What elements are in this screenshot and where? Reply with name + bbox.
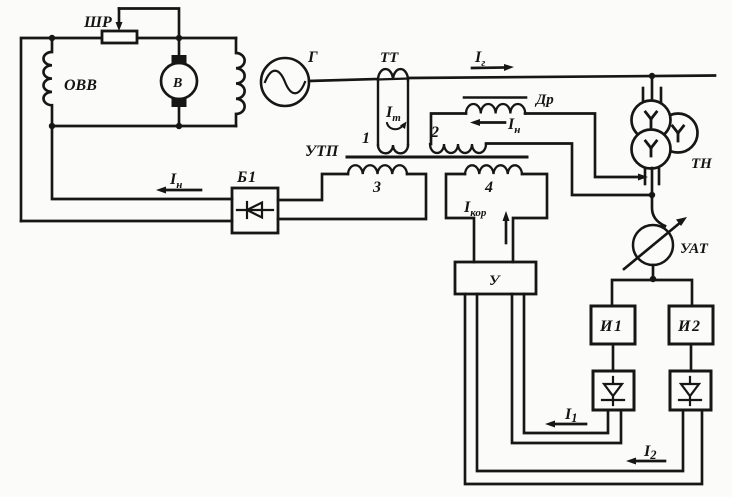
generator G circle [261,58,309,106]
svg-text:Др: Др [534,92,554,108]
wire: U leg to VS2 (upper) [477,294,683,471]
wire: B1 upper right to winding 3 left [278,174,348,200]
wire: U leg to VS2 (lower) [465,294,702,484]
wire: node F to UAT with curve [652,195,665,226]
wire: winding 4 left lead to U box [446,174,474,262]
box I1 [591,306,635,344]
svg-text:I1: I1 [564,406,577,425]
svg-text:Iг: Iг [474,49,485,69]
svg-text:ТН: ТН [691,156,713,172]
wire: left outer vertical and top bus [21,38,236,221]
UTP core line [347,156,527,159]
arrow In middle [478,121,505,124]
winding 2 of UTP [430,144,486,153]
node dot F [649,192,655,198]
arrow Ig [472,66,507,69]
arrow I2 [634,460,665,463]
generator G sine [265,71,305,94]
control box U [455,262,536,294]
svg-text:УАТ: УАТ [680,241,709,257]
svg-text:1: 1 [362,130,370,147]
svg-text:Iт: Iт [385,104,401,124]
thyristor box VS1 [593,371,634,410]
wire: U leg to VS1 (second) [512,294,621,443]
transformer TN stubs top [651,76,654,102]
wire: I1 to thyristor VS1 [612,344,615,371]
svg-text:УТП: УТП [305,143,339,160]
node dot A [49,35,55,41]
svg-text:Г: Г [307,49,318,66]
node dot E on bus [649,73,655,79]
arrow In left [164,189,201,192]
transformer TN circles [632,101,698,169]
wire: rheostat wiper bypass [119,9,179,39]
wire: main top bus TT to right edge [408,76,715,79]
wire: G to TT [309,79,378,81]
node dot D [176,123,182,129]
svg-text:3: 3 [372,179,381,196]
svg-text:В: В [172,76,182,91]
diode inside B1 [237,202,273,218]
box I2 [669,306,713,344]
svg-text:И1: И1 [599,318,623,335]
thyristor box VS2 [670,371,711,410]
wire: winding 4 right lead to U box [513,174,547,262]
wire: armature bottom [52,125,236,128]
wire: Dr right lead stepped down to TN with arrow [525,114,641,178]
motor V circle [161,63,197,99]
wire: I2 to thyristor VS2 [690,344,693,371]
svg-text:ТТ: ТТ [380,50,399,66]
node dot G [650,276,656,282]
arrowhead into TN [638,174,648,181]
svg-text:I2: I2 [643,443,656,462]
wire: UAT bottom to node G [652,265,655,279]
wire: winding2 right lead stepped to node F [486,144,652,196]
Y in top circle [646,112,657,127]
wire: winding 3 right back to B1 lower [278,174,426,219]
motor V top stub [178,38,181,55]
svg-text:4: 4 [484,179,493,196]
wire: Dr left lead down to winding 2 [431,114,466,145]
arrow I1 [553,423,586,426]
motor V bottom brush [172,99,187,108]
choke Dr core line [464,96,526,99]
winding 4 of UTP [465,165,522,174]
thyristor symbol VS2 [679,377,701,405]
arrowhead: wiper down [116,22,123,31]
thyristor symbol VS1 [602,377,624,405]
wire: bottom long wire to B1 lower left [21,220,232,223]
rectifier B1 box [232,188,278,233]
resistor ShR [102,31,137,43]
svg-text:Iкор: Iкор [463,199,487,219]
svg-text:И2: И2 [677,318,701,335]
Y in bottom circle [646,141,657,156]
svg-text:Iн: Iн [507,116,520,136]
svg-text:У: У [489,273,501,289]
current transformer TT [378,69,408,153]
svg-text:2: 2 [430,124,439,141]
wire: OVV bottom branch down to In wire [52,126,232,199]
It circular arrow [387,123,403,129]
node dot C [49,123,55,129]
arrow Ikor up [505,219,508,243]
node dot B [176,35,182,41]
motor V bottom stub [178,107,181,126]
svg-text:Б1: Б1 [236,169,257,186]
svg-text:ШР: ШР [83,14,112,31]
UAT diagonal arrow [624,222,681,269]
autotransformer UAT circle [633,225,673,265]
motor V top brush [172,55,187,64]
choke Dr coil [466,104,525,114]
coil OVV [44,38,53,126]
Y in right circle [673,126,684,141]
winding 3 of UTP [348,165,407,174]
coil armature right [236,38,245,126]
wire: distribution to I1 I2 [612,280,692,306]
transformer TN stubs bottom [644,168,647,184]
svg-text:ОВВ: ОВВ [64,77,97,94]
wire: U leg to VS1 (inner) [524,294,608,433]
svg-text:Iн: Iн [169,171,182,191]
